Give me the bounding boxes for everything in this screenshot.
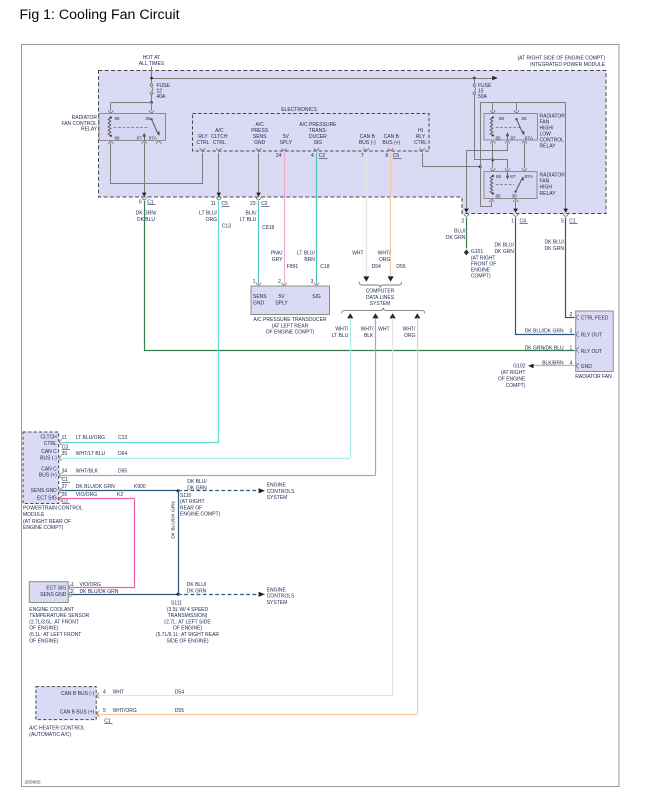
svg-text:K900: K900 [134, 484, 146, 490]
svg-text:50A: 50A [478, 94, 488, 100]
svg-text:(2.7L/3.5L: AT FRONT: (2.7L/3.5L: AT FRONT [29, 619, 79, 625]
svg-text:VIO/ORG: VIO/ORG [80, 582, 102, 588]
svg-text:SYSTEM: SYSTEM [267, 600, 288, 606]
svg-text:OF ENGINE COMPT): OF ENGINE COMPT) [266, 330, 315, 336]
svg-text:S111: S111 [171, 601, 182, 607]
svg-text:(AT RIGHT SIDE OF ENGINE COMPT: (AT RIGHT SIDE OF ENGINE COMPT) [517, 56, 605, 62]
svg-text:GND: GND [254, 140, 266, 146]
svg-text:5: 5 [103, 708, 106, 714]
svg-text:DK GRN/DK BLU: DK GRN/DK BLU [525, 345, 564, 351]
svg-text:OF ENGINE): OF ENGINE) [29, 626, 59, 632]
svg-text:DK GRN/: DK GRN/ [136, 211, 157, 217]
svg-text:27: 27 [62, 484, 68, 490]
svg-text:2: 2 [278, 279, 281, 285]
svg-text:86: 86 [496, 174, 502, 179]
svg-text:DK BLU/DK GRN: DK BLU/DK GRN [76, 484, 115, 490]
svg-text:ORG: ORG [379, 257, 391, 263]
svg-text:DK BLU/DK GRN: DK BLU/DK GRN [171, 501, 177, 539]
svg-text:2: 2 [461, 219, 464, 225]
svg-text:BUS (-): BUS (-) [359, 140, 376, 146]
svg-text:6: 6 [139, 200, 142, 206]
svg-text:A/C: A/C [256, 122, 265, 128]
svg-text:SYSTEM: SYSTEM [267, 495, 288, 501]
svg-text:TRANSMISSION): TRANSMISSION) [168, 613, 208, 619]
svg-text:TRANS-: TRANS- [309, 128, 328, 134]
svg-text:C13: C13 [118, 435, 127, 441]
svg-text:SENS GND: SENS GND [31, 488, 58, 494]
svg-text:A/C PRESSURE TRANSDUCER: A/C PRESSURE TRANSDUCER [253, 317, 327, 323]
svg-text:GND: GND [253, 300, 265, 306]
svg-text:DK BLU/: DK BLU/ [187, 479, 207, 485]
svg-text:LT BLU/: LT BLU/ [199, 211, 217, 217]
svg-text:OF ENGINE): OF ENGINE) [29, 638, 59, 644]
svg-text:5: 5 [561, 219, 564, 225]
svg-text:D65: D65 [118, 469, 127, 475]
svg-text:C818: C818 [262, 225, 274, 231]
svg-text:30: 30 [512, 193, 518, 198]
svg-text:WHT: WHT [352, 251, 363, 257]
svg-text:BLU/: BLU/ [454, 229, 466, 235]
svg-text:RLY: RLY [416, 134, 426, 140]
svg-text:HIGH: HIGH [540, 185, 553, 191]
svg-text:CLTCH: CLTCH [211, 134, 228, 140]
svg-text:LT BLU/: LT BLU/ [297, 251, 315, 257]
svg-text:85: 85 [496, 135, 502, 140]
svg-text:WHT/: WHT/ [403, 327, 416, 333]
svg-text:ECT SIG: ECT SIG [46, 585, 66, 591]
svg-text:35: 35 [62, 451, 68, 457]
svg-text:K2: K2 [117, 492, 123, 498]
svg-text:ORG: ORG [206, 217, 218, 223]
svg-text:POWERTRAIN CONTROL: POWERTRAIN CONTROL [23, 506, 83, 512]
svg-text:34: 34 [62, 469, 68, 475]
svg-text:A/C PRESSURE: A/C PRESSURE [299, 122, 337, 128]
svg-text:ENGINE COOLANT: ENGINE COOLANT [29, 607, 74, 613]
svg-text:ECT SIG: ECT SIG [37, 496, 57, 502]
svg-text:87: 87 [510, 174, 516, 179]
svg-text:DK GRN: DK GRN [545, 246, 565, 252]
svg-text:PRESS: PRESS [251, 128, 269, 134]
svg-text:RLY: RLY [198, 134, 208, 140]
svg-text:ENGINE: ENGINE [267, 483, 287, 489]
svg-text:D64: D64 [118, 451, 127, 457]
svg-text:87: 87 [511, 135, 517, 140]
svg-text:SYSTEM: SYSTEM [370, 301, 391, 307]
svg-text:(2.7L: AT LEFT SIDE: (2.7L: AT LEFT SIDE [164, 619, 211, 625]
svg-text:BUS (+): BUS (+) [382, 140, 400, 146]
svg-text:DK BLU: DK BLU [137, 217, 155, 223]
svg-text:C18: C18 [320, 264, 329, 270]
svg-text:DK GRN: DK GRN [187, 589, 207, 595]
svg-text:WHT/BLK: WHT/BLK [76, 469, 99, 475]
svg-text:SPLY: SPLY [280, 140, 293, 146]
svg-text:ELECTRONICS: ELECTRONICS [281, 107, 317, 113]
svg-text:DK GRN: DK GRN [494, 249, 514, 255]
svg-text:A/C: A/C [215, 128, 224, 134]
svg-text:CAN C: CAN C [41, 466, 57, 472]
svg-text:(5.7L/6.1L: AT RIGHT REAR: (5.7L/6.1L: AT RIGHT REAR [156, 632, 219, 638]
svg-text:WHT/ORG: WHT/ORG [113, 708, 137, 714]
svg-text:CTRL: CTRL [414, 140, 427, 146]
svg-text:40A: 40A [157, 94, 167, 100]
svg-text:WHT: WHT [113, 690, 124, 696]
svg-text:4: 4 [311, 153, 314, 159]
svg-text:D55: D55 [396, 264, 405, 270]
svg-text:BRN: BRN [304, 257, 315, 263]
svg-text:BLK: BLK [364, 333, 374, 339]
svg-text:SIG: SIG [312, 294, 321, 300]
svg-text:DK GRN: DK GRN [187, 485, 207, 491]
svg-text:OF ENGINE): OF ENGINE) [173, 626, 203, 632]
svg-text:G102: G102 [513, 364, 525, 370]
svg-text:A/C HEATER CONTROL: A/C HEATER CONTROL [29, 726, 85, 732]
svg-text:CAN B: CAN B [360, 134, 376, 140]
svg-text:TEMPERATURE SENSOR: TEMPERATURE SENSOR [29, 613, 89, 619]
svg-text:RADIATOR: RADIATOR [540, 172, 566, 178]
svg-text:ENGINE COMPT): ENGINE COMPT) [180, 512, 221, 518]
svg-text:BUS (-): BUS (-) [40, 456, 57, 462]
svg-text:INTEGRATED POWER MODULE: INTEGRATED POWER MODULE [530, 62, 606, 68]
svg-text:1: 1 [570, 345, 573, 351]
svg-text:ALL TIMES: ALL TIMES [139, 61, 165, 67]
svg-text:26: 26 [62, 492, 68, 498]
svg-text:SIG: SIG [314, 140, 323, 146]
svg-text:S110: S110 [180, 493, 192, 499]
svg-text:30: 30 [521, 116, 527, 121]
svg-text:C2: C2 [319, 153, 326, 159]
svg-text:DK BLU/: DK BLU/ [187, 582, 207, 588]
svg-text:BLK/: BLK/ [246, 211, 257, 217]
svg-text:LT BLU: LT BLU [240, 217, 257, 223]
svg-text:24: 24 [276, 153, 282, 159]
svg-text:85: 85 [496, 193, 502, 198]
svg-text:MODULE: MODULE [23, 512, 45, 518]
svg-text:1: 1 [511, 219, 514, 225]
svg-text:3: 3 [311, 279, 314, 285]
svg-text:CONTROLS: CONTROLS [267, 594, 295, 600]
svg-text:DK BLU/DK GRN: DK BLU/DK GRN [525, 329, 564, 335]
svg-text:C2: C2 [261, 201, 268, 207]
svg-text:85: 85 [115, 116, 121, 121]
svg-text:DK GRN: DK GRN [446, 235, 466, 241]
svg-text:WHT/: WHT/ [361, 327, 374, 333]
svg-text:REAR OF: REAR OF [180, 505, 202, 511]
svg-text:87A: 87A [149, 136, 158, 141]
svg-text:1: 1 [253, 279, 256, 285]
svg-text:DK BLU/: DK BLU/ [545, 240, 565, 246]
svg-text:LT BLU: LT BLU [332, 333, 349, 339]
svg-text:SPLY: SPLY [275, 300, 288, 306]
svg-text:D54: D54 [372, 264, 381, 270]
svg-text:GRY: GRY [272, 257, 283, 263]
svg-text:30: 30 [145, 116, 151, 121]
svg-text:CTRL FEED: CTRL FEED [581, 316, 609, 322]
svg-text:23: 23 [250, 201, 256, 207]
svg-text:86: 86 [499, 116, 505, 121]
svg-text:COMPT): COMPT) [506, 383, 526, 389]
svg-text:RLY OUT: RLY OUT [581, 332, 602, 338]
svg-text:OF ENGINE: OF ENGINE [498, 377, 526, 383]
svg-text:2: 2 [570, 312, 573, 318]
svg-text:HI: HI [418, 128, 423, 134]
svg-text:COMPT): COMPT) [471, 273, 491, 279]
svg-text:87A: 87A [525, 135, 534, 140]
svg-text:5V: 5V [278, 294, 285, 300]
svg-text:SENS GND: SENS GND [40, 592, 67, 598]
svg-text:ENGINE COMPT): ENGINE COMPT) [23, 525, 64, 531]
svg-text:ENGINE: ENGINE [267, 587, 287, 593]
svg-text:G101: G101 [471, 249, 483, 255]
svg-text:87: 87 [137, 136, 143, 141]
svg-text:(AUTOMATIC A/C): (AUTOMATIC A/C) [29, 732, 71, 738]
svg-text:DK BLU/: DK BLU/ [494, 243, 514, 249]
svg-text:VIO/ORG: VIO/ORG [76, 492, 98, 498]
svg-text:C1: C1 [62, 477, 69, 483]
svg-text:F891: F891 [287, 264, 299, 270]
svg-text:RADIATOR FAN: RADIATOR FAN [575, 374, 612, 380]
svg-text:86: 86 [115, 136, 121, 141]
svg-text:BUS (+): BUS (+) [39, 473, 57, 479]
svg-text:CLTCH: CLTCH [41, 435, 58, 441]
svg-text:SIDE OF ENGINE): SIDE OF ENGINE) [166, 638, 209, 644]
svg-text:SENS: SENS [253, 134, 267, 140]
svg-text:DATA LINES: DATA LINES [366, 295, 395, 301]
svg-text:1: 1 [71, 582, 74, 588]
svg-text:C5: C5 [222, 201, 229, 207]
svg-text:11: 11 [211, 201, 216, 207]
svg-text:(6.1L: AT LEFT FRONT: (6.1L: AT LEFT FRONT [29, 632, 81, 638]
svg-text:WHT/LT BLU: WHT/LT BLU [76, 451, 106, 457]
svg-text:5V: 5V [283, 134, 290, 140]
svg-text:87A: 87A [525, 174, 534, 179]
svg-text:WHT/: WHT/ [378, 251, 391, 257]
svg-text:RELAY: RELAY [540, 191, 557, 197]
svg-text:WHT: WHT [378, 327, 389, 333]
svg-text:CAN B BUS (-): CAN B BUS (-) [61, 691, 95, 697]
svg-text:D54: D54 [175, 690, 184, 696]
svg-text:CTRL: CTRL [196, 140, 209, 146]
svg-text:SENS: SENS [253, 294, 267, 300]
svg-text:CTRL: CTRL [44, 441, 57, 447]
svg-text:LT BLU/ORG: LT BLU/ORG [76, 435, 105, 441]
svg-text:(AT RIGHT: (AT RIGHT [180, 499, 205, 505]
svg-text:(AT RIGHT: (AT RIGHT [501, 370, 526, 376]
svg-text:3: 3 [570, 329, 573, 335]
svg-text:FAN: FAN [540, 178, 550, 184]
svg-text:GND: GND [581, 364, 593, 370]
svg-text:RELAY: RELAY [540, 143, 557, 149]
svg-text:260965: 260965 [25, 780, 41, 786]
svg-text:4: 4 [103, 690, 106, 696]
svg-text:CAN C: CAN C [41, 449, 57, 455]
svg-text:PNK/: PNK/ [271, 251, 283, 257]
svg-text:CONTROLS: CONTROLS [267, 489, 295, 495]
svg-text:C13: C13 [222, 223, 231, 229]
svg-text:ORG: ORG [404, 333, 416, 339]
svg-text:(AT LEFT REAR: (AT LEFT REAR [272, 323, 309, 329]
svg-text:CAN B BUS (+): CAN B BUS (+) [60, 709, 95, 715]
svg-text:(3.5L W/ 4 SPEED: (3.5L W/ 4 SPEED [167, 607, 209, 613]
svg-text:COMPUTER: COMPUTER [366, 289, 395, 295]
svg-text:RLY OUT: RLY OUT [581, 349, 602, 355]
svg-text:RELAY: RELAY [81, 126, 98, 132]
svg-text:D55: D55 [175, 708, 184, 714]
svg-text:CTRL: CTRL [213, 140, 226, 146]
svg-text:Fig 1: Cooling Fan Circuit: Fig 1: Cooling Fan Circuit [20, 7, 180, 23]
svg-text:7: 7 [361, 153, 364, 159]
svg-text:11: 11 [62, 435, 67, 441]
svg-text:8: 8 [385, 153, 388, 159]
svg-text:C5: C5 [393, 153, 400, 159]
svg-text:DUCER: DUCER [309, 134, 327, 140]
svg-text:WHT/: WHT/ [335, 327, 348, 333]
svg-text:(AT RIGHT REAR OF: (AT RIGHT REAR OF [23, 519, 71, 525]
svg-text:CAN B: CAN B [384, 134, 400, 140]
